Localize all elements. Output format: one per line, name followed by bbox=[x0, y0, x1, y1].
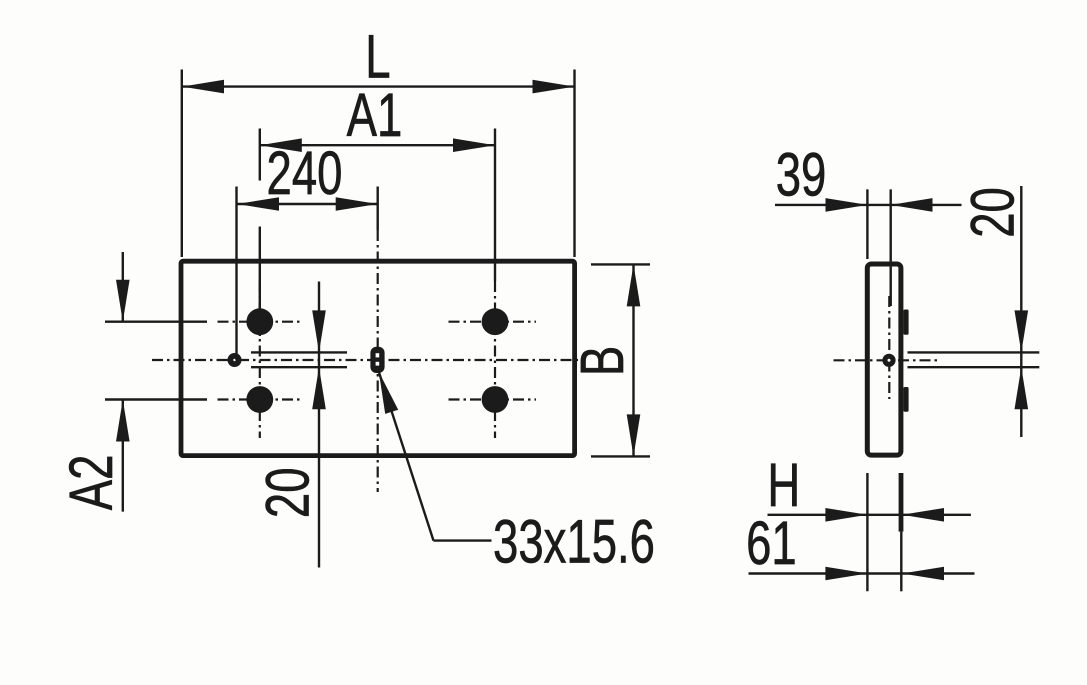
svg-text:20: 20 bbox=[254, 467, 322, 518]
svg-text:A1: A1 bbox=[347, 82, 403, 150]
svg-text:B: B bbox=[569, 346, 637, 376]
svg-text:61: 61 bbox=[746, 510, 797, 578]
svg-text:240: 240 bbox=[267, 139, 343, 207]
svg-text:A2: A2 bbox=[57, 455, 125, 511]
svg-text:33x15.6: 33x15.6 bbox=[493, 508, 655, 576]
svg-text:39: 39 bbox=[776, 141, 827, 209]
svg-text:20: 20 bbox=[959, 187, 1027, 238]
